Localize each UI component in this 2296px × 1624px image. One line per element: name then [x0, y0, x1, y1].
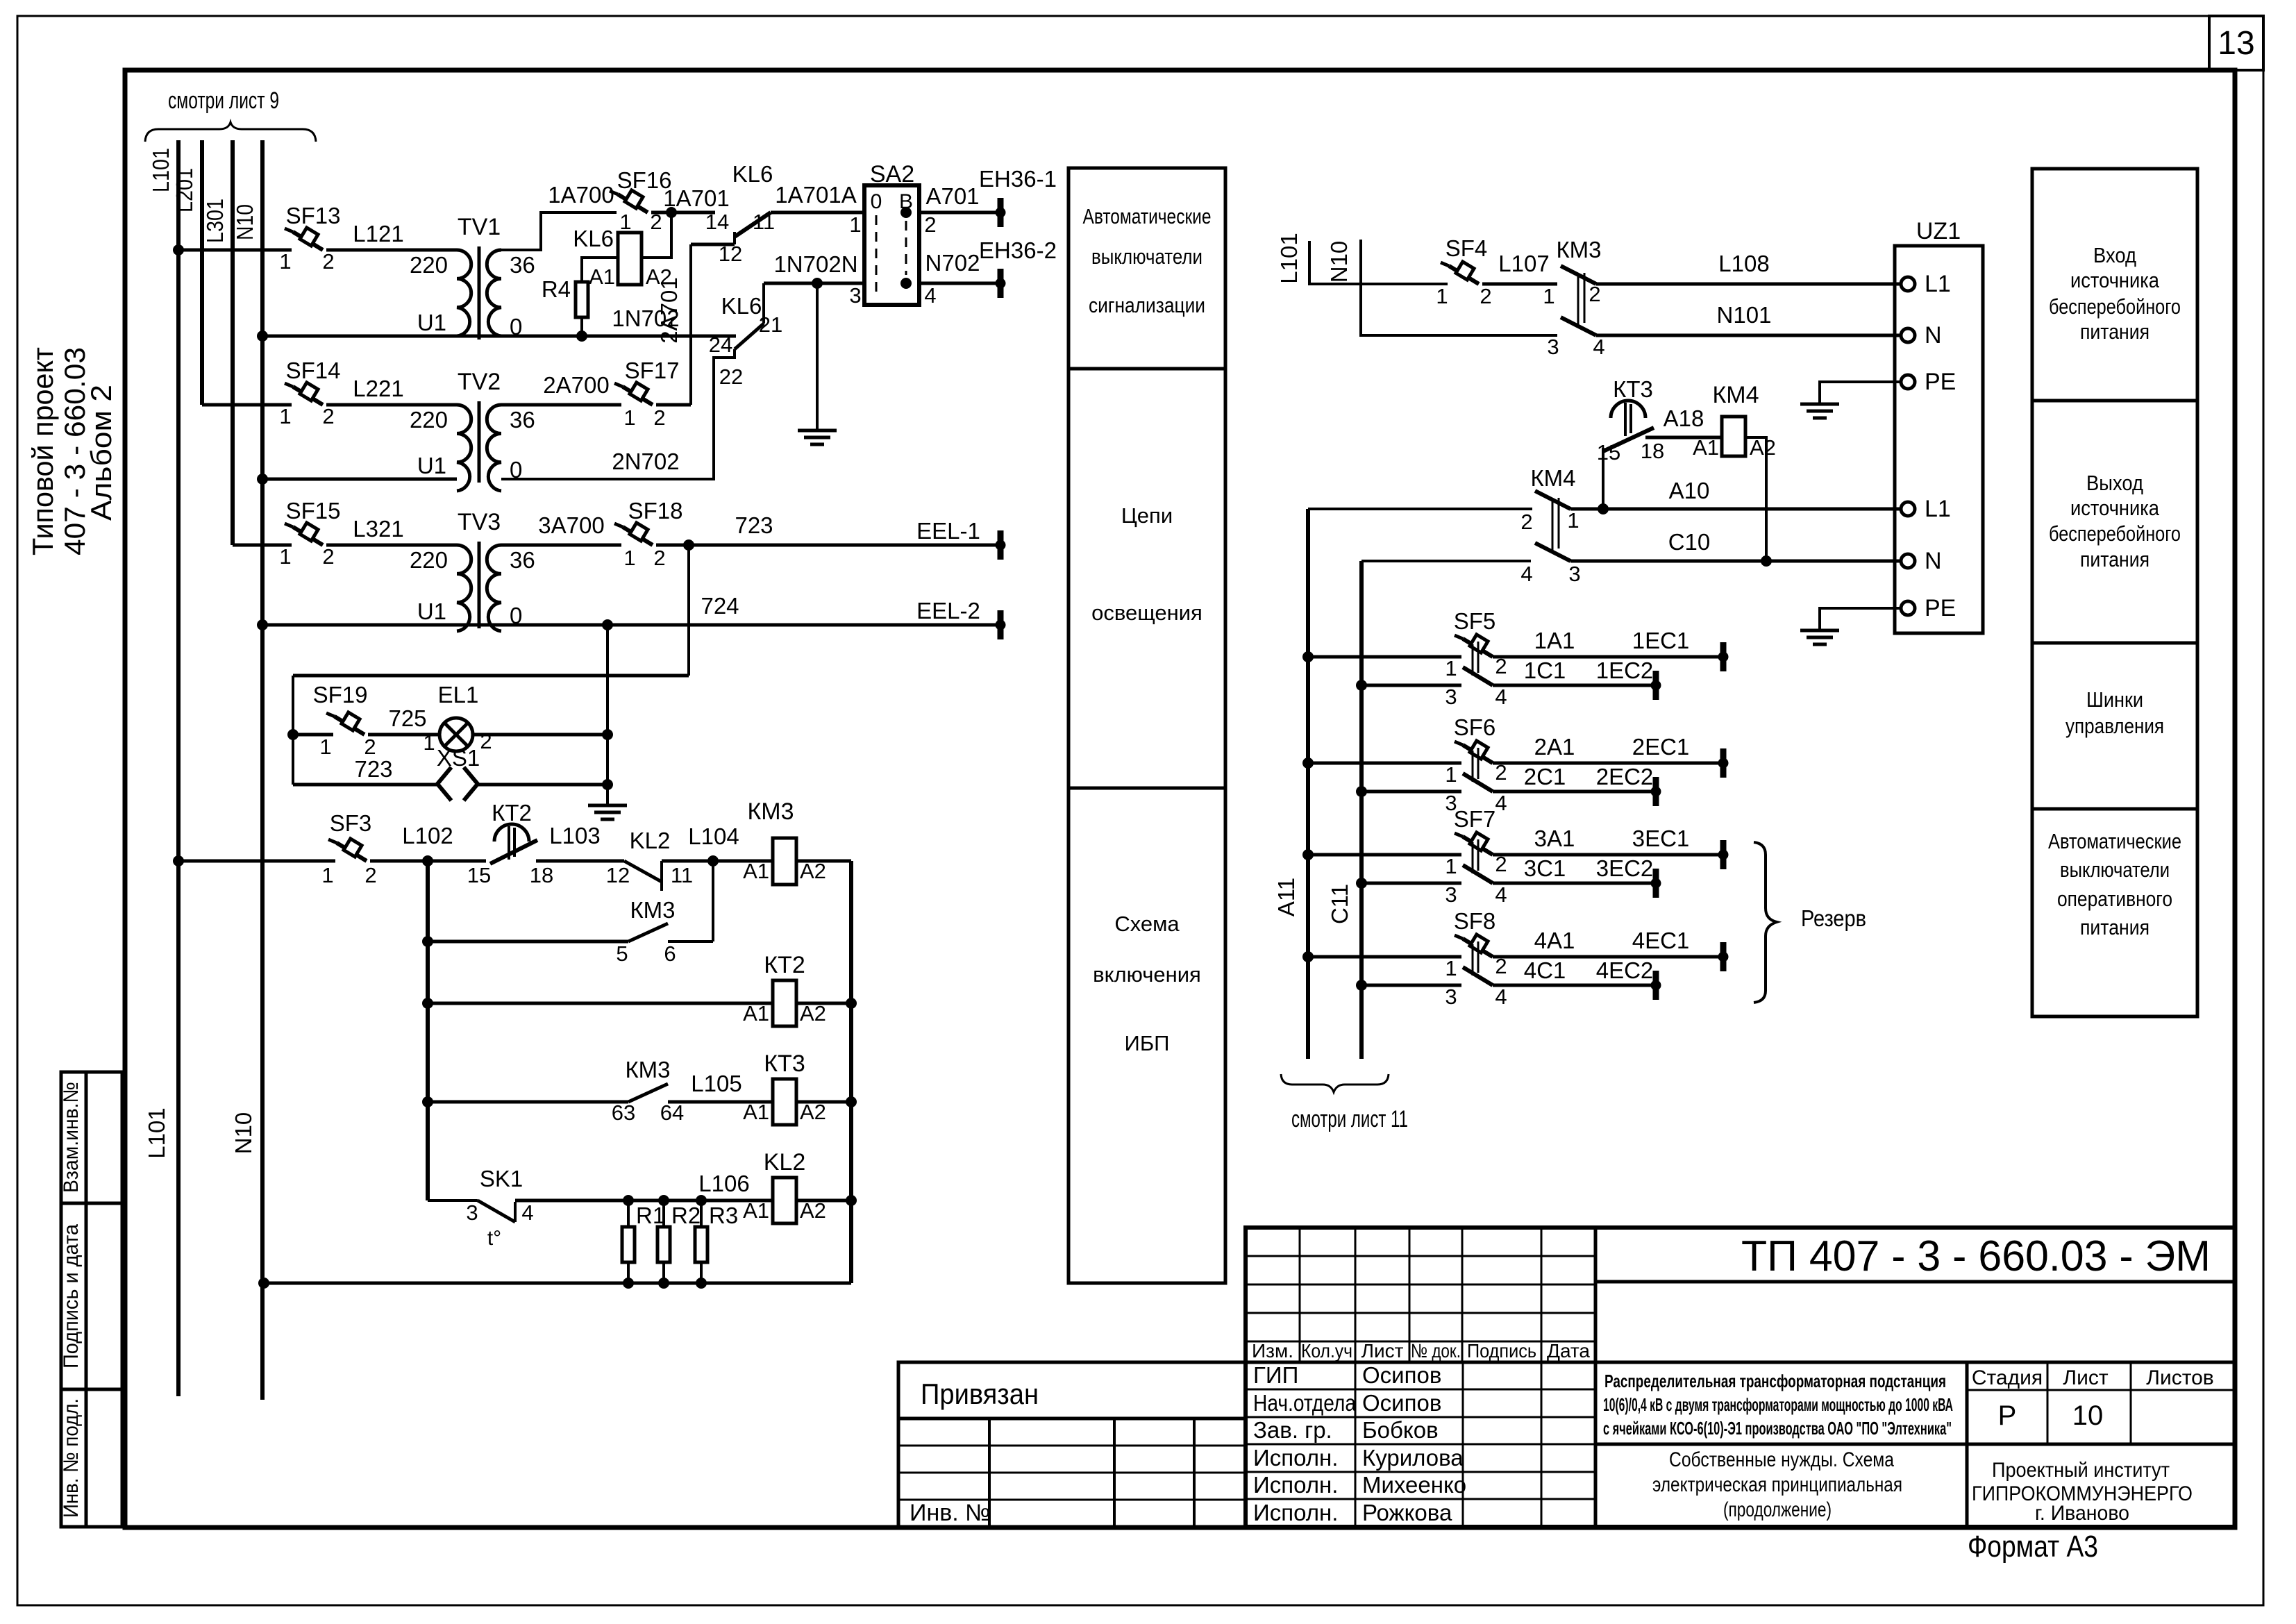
- wire: [689, 544, 1000, 547]
- wire: [428, 940, 628, 944]
- wire to ground: [816, 283, 819, 429]
- svg-text:ИБП: ИБП: [1125, 1031, 1170, 1055]
- node on C11: [1356, 786, 1367, 797]
- svg-text:выключатели: выключатели: [1091, 244, 1203, 269]
- svg-text:A1: A1: [743, 1100, 769, 1124]
- svg-text:N: N: [1925, 548, 1942, 574]
- wire: [368, 733, 439, 737]
- svg-text:2A700: 2A700: [543, 372, 609, 398]
- wire C11 branch: [1361, 560, 1531, 562]
- svg-text:Осипов: Осипов: [1362, 1390, 1441, 1416]
- terminal L1: [1901, 502, 1915, 516]
- svg-text:4: 4: [1495, 791, 1507, 815]
- relay contact KL2: [624, 861, 662, 882]
- svg-text:КМ3: КМ3: [1556, 237, 1601, 262]
- terminal 2EC2: [1651, 777, 1661, 806]
- wire: [536, 860, 624, 863]
- svg-text:18: 18: [530, 863, 553, 887]
- wire: [293, 674, 689, 678]
- wire KL6 coil feed: [642, 212, 671, 258]
- svg-text:A1: A1: [743, 1198, 769, 1223]
- svg-text:10: 10: [2072, 1400, 2104, 1431]
- svg-text:A10: A10: [1669, 478, 1710, 503]
- wire: [262, 478, 457, 481]
- svg-text:Дата: Дата: [1547, 1340, 1590, 1362]
- svg-text:3: 3: [1445, 685, 1457, 709]
- ground: [1800, 404, 1839, 418]
- svg-text:12: 12: [606, 863, 630, 887]
- wire: [1308, 762, 1461, 765]
- brace смотри лист 11: [1281, 1074, 1389, 1092]
- wire: [1361, 882, 1461, 885]
- node: [422, 998, 433, 1009]
- breaker SF15: [285, 523, 323, 545]
- node 1A701: [666, 207, 677, 218]
- node A10: [1598, 503, 1609, 514]
- svg-text:Автоматические: Автоматические: [2048, 829, 2181, 853]
- node R2 bottom: [658, 1278, 669, 1289]
- wire to ground: [606, 785, 609, 805]
- relay contact KM3 aux: [628, 923, 668, 941]
- resistor R3: [695, 1227, 707, 1262]
- svg-text:Михеенко: Михеенко: [1362, 1472, 1466, 1498]
- wire: [501, 623, 1000, 627]
- svg-text:N: N: [1925, 322, 1942, 349]
- wire: [501, 403, 621, 407]
- svg-text:1: 1: [1445, 854, 1457, 878]
- svg-text:KL6: KL6: [721, 293, 762, 319]
- svg-text:Лист: Лист: [1361, 1340, 1404, 1362]
- svg-text:КМ3: КМ3: [630, 897, 675, 923]
- svg-text:Бобков: Бобков: [1362, 1417, 1439, 1443]
- wire: [1645, 436, 1723, 440]
- svg-text:21: 21: [759, 312, 782, 337]
- wire PE to ground: [1820, 608, 1902, 629]
- functional zone boxes (middle): [1069, 168, 1225, 1283]
- wire: [293, 783, 437, 787]
- svg-text:2ЕС2: 2ЕС2: [1596, 764, 1654, 789]
- wire: [1308, 655, 1461, 659]
- svg-text:0: 0: [871, 190, 882, 213]
- wire: [293, 733, 333, 737]
- svg-text:L1: L1: [1925, 271, 1951, 297]
- svg-text:C10: C10: [1668, 529, 1711, 555]
- node C10: [1761, 555, 1772, 567]
- svg-text:Выход: Выход: [2086, 471, 2143, 495]
- svg-text:4: 4: [1593, 335, 1604, 359]
- time relay contact KT2: [494, 824, 529, 842]
- terminal N: [1901, 554, 1915, 568]
- wire: [1493, 790, 1656, 794]
- svg-text:включения: включения: [1093, 962, 1201, 987]
- svg-text:3: 3: [1547, 335, 1559, 359]
- svg-text:Исполн.: Исполн.: [1253, 1500, 1338, 1525]
- svg-text:КМ4: КМ4: [1530, 465, 1575, 491]
- wire: [1570, 508, 1902, 511]
- svg-text:Автоматические: Автоматические: [1083, 204, 1212, 228]
- breaker SF6 (2-pole): [1455, 741, 1493, 792]
- svg-text:U1: U1: [417, 310, 446, 335]
- svg-text:3: 3: [849, 283, 861, 308]
- wire: [326, 249, 457, 252]
- svg-text:Осипов: Осипов: [1362, 1362, 1441, 1388]
- svg-text:1: 1: [1445, 956, 1457, 980]
- ground: [1800, 630, 1839, 644]
- wire: [662, 860, 773, 863]
- svg-text:L201: L201: [171, 168, 197, 212]
- svg-text:723: 723: [735, 512, 773, 538]
- svg-text:1: 1: [623, 546, 635, 570]
- wire: [1493, 955, 1723, 959]
- wire: [202, 403, 292, 407]
- svg-text:КТ3: КТ3: [1613, 376, 1653, 402]
- contact dot: [900, 278, 912, 289]
- node 1N702N: [812, 278, 823, 289]
- breaker SF5 (2-pole): [1455, 635, 1493, 685]
- relay contact KM3 63-64: [628, 1084, 668, 1102]
- svg-text:SF13: SF13: [286, 203, 341, 228]
- svg-text:питания: питания: [2080, 915, 2150, 939]
- svg-text:Типовой проект: Типовой проект: [26, 347, 59, 555]
- contact dot: [900, 207, 912, 218]
- node on A11: [1302, 849, 1314, 860]
- svg-text:смотри лист 9: смотри лист 9: [168, 87, 279, 114]
- breaker SF16: [610, 190, 648, 212]
- wire: [1361, 790, 1461, 794]
- svg-text:4: 4: [1495, 685, 1507, 709]
- wire 2N702: [501, 349, 735, 479]
- svg-text:2N702: 2N702: [612, 449, 679, 474]
- terminal L1: [1901, 277, 1915, 291]
- svg-text:Альбом 2: Альбом 2: [85, 385, 117, 521]
- node on N10: [258, 1278, 269, 1289]
- wire: [656, 403, 691, 407]
- sheet number box: [2209, 16, 2263, 70]
- svg-text:2: 2: [322, 249, 334, 274]
- wire 2A701: [689, 244, 692, 405]
- wire R2 bottom: [662, 1262, 665, 1283]
- svg-text:питания: питания: [2080, 547, 2150, 571]
- svg-text:источника: источника: [2070, 268, 2160, 292]
- functional zone boxes (right): [2032, 169, 2197, 1016]
- svg-text:TV2: TV2: [458, 369, 501, 395]
- wire: [428, 1100, 628, 1104]
- contactor KM3 main contacts: [1561, 266, 1596, 335]
- node on A11: [1302, 651, 1314, 662]
- terminal 3EC2: [1651, 869, 1661, 898]
- svg-text:Листов: Листов: [2146, 1366, 2213, 1389]
- wire: [796, 1100, 851, 1104]
- svg-text:питания: питания: [2080, 319, 2150, 344]
- breaker SF19: [326, 712, 364, 735]
- wire: [178, 249, 292, 252]
- svg-text:1: 1: [279, 404, 291, 428]
- svg-text:KL6: KL6: [573, 226, 614, 251]
- svg-text:ГИП: ГИП: [1253, 1362, 1298, 1388]
- svg-text:1A701A: 1A701A: [775, 182, 856, 208]
- node R3 bottom: [696, 1278, 707, 1289]
- svg-text:1A701: 1A701: [663, 185, 729, 211]
- node R2 top: [658, 1195, 669, 1206]
- resistor R4: [576, 282, 588, 317]
- svg-text:КТ3: КТ3: [764, 1050, 805, 1077]
- svg-text:1А1: 1А1: [1534, 628, 1575, 653]
- svg-text:5: 5: [616, 941, 628, 966]
- wire: [1493, 762, 1723, 765]
- svg-text:10(6)/0,4 кВ с двумя трансформ: 10(6)/0,4 кВ с двумя трансформаторами мо…: [1603, 1394, 1953, 1415]
- svg-text:SF3: SF3: [330, 810, 372, 836]
- wire to R3: [700, 1200, 703, 1227]
- node 723: [683, 539, 694, 551]
- terminal PE: [1901, 375, 1915, 389]
- wire to R2: [662, 1200, 665, 1227]
- svg-text:(продолжение): (продолжение): [1723, 1498, 1832, 1521]
- svg-text:A1: A1: [589, 265, 615, 289]
- svg-text:3ЕС1: 3ЕС1: [1632, 826, 1690, 851]
- svg-text:Лист: Лист: [2063, 1366, 2108, 1389]
- svg-text:4: 4: [521, 1200, 533, 1225]
- svg-text:3A700: 3A700: [538, 512, 604, 538]
- node R3 top: [696, 1195, 707, 1206]
- svg-text:2: 2: [653, 405, 665, 430]
- svg-text:4А1: 4А1: [1534, 928, 1575, 953]
- svg-text:L103: L103: [549, 823, 600, 848]
- wire: [428, 1002, 773, 1005]
- svg-text:SF5: SF5: [1454, 608, 1496, 634]
- svg-text:сигнализации: сигнализации: [1089, 293, 1205, 317]
- svg-text:3: 3: [466, 1200, 478, 1225]
- svg-text:18: 18: [1641, 439, 1664, 463]
- terminal PE: [1901, 601, 1915, 615]
- wire: [771, 211, 864, 215]
- transformer TV2: [457, 401, 501, 491]
- svg-text:3ЕС2: 3ЕС2: [1596, 855, 1654, 881]
- svg-text:220: 220: [410, 252, 448, 278]
- node R1 bottom: [623, 1278, 634, 1289]
- svg-text:A2: A2: [1750, 435, 1776, 460]
- svg-text:N101: N101: [1717, 302, 1772, 328]
- terminal 1EC2: [1651, 671, 1661, 700]
- node: [602, 779, 613, 790]
- svg-text:L221: L221: [353, 376, 403, 401]
- terminal EEL-2: [996, 610, 1005, 639]
- svg-text:Курилова: Курилова: [1362, 1445, 1464, 1471]
- svg-text:Нач.отдела: Нач.отдела: [1253, 1390, 1357, 1416]
- wire left rail to SK1: [428, 1199, 478, 1202]
- terminal EH36-1: [996, 198, 1005, 227]
- transformer TV1: [457, 246, 501, 340]
- wire: [1308, 955, 1461, 959]
- wire PE to ground: [1820, 382, 1902, 403]
- time relay contact KT3: [1611, 401, 1645, 418]
- svg-text:A1: A1: [743, 1001, 769, 1026]
- svg-text:SF4: SF4: [1446, 235, 1488, 261]
- relay contact KL6 upper: [735, 212, 771, 237]
- svg-text:С11: С11: [1327, 884, 1352, 924]
- svg-text:1: 1: [623, 405, 635, 430]
- wire: [501, 544, 621, 547]
- svg-text:N10: N10: [231, 1112, 256, 1155]
- svg-text:64: 64: [660, 1100, 684, 1125]
- svg-text:14: 14: [705, 210, 729, 234]
- svg-text:A18: A18: [1664, 405, 1704, 431]
- terminal 1EC1: [1718, 642, 1728, 671]
- node: [422, 1096, 433, 1107]
- svg-text:4: 4: [1520, 562, 1532, 586]
- node: [846, 1195, 857, 1206]
- svg-text:бесперебойного: бесперебойного: [2049, 521, 2181, 546]
- privyazan table: [898, 1362, 1246, 1527]
- svg-text:UZ1: UZ1: [1916, 218, 1961, 244]
- svg-text:3: 3: [1445, 882, 1457, 907]
- svg-text:L101: L101: [144, 1107, 169, 1158]
- svg-text:№ док.: № док.: [1411, 1340, 1461, 1362]
- svg-text:Распределительная трансформато: Распределительная трансформаторная подст…: [1604, 1371, 1946, 1391]
- svg-text:R2: R2: [671, 1203, 701, 1228]
- node L102: [422, 855, 433, 867]
- wire: [473, 733, 607, 737]
- svg-text:1: 1: [279, 249, 291, 274]
- resistor R2: [657, 1227, 670, 1262]
- svg-text:13: 13: [2218, 25, 2254, 62]
- svg-text:управления: управления: [2065, 714, 2164, 738]
- wire: [1596, 283, 1902, 286]
- svg-text:1: 1: [423, 730, 435, 755]
- svg-text:KL2: KL2: [630, 828, 671, 853]
- relay coil KL2: [773, 1178, 796, 1223]
- svg-text:ЕН36-1: ЕН36-1: [979, 166, 1057, 192]
- svg-text:Р: Р: [1998, 1400, 2017, 1431]
- wire: [919, 282, 1000, 285]
- svg-text:L1: L1: [1925, 496, 1951, 522]
- svg-text:L102: L102: [402, 823, 453, 848]
- wire: [1493, 882, 1656, 885]
- breaker SF3: [328, 839, 367, 861]
- breaker SF13: [285, 228, 323, 250]
- node on A11: [1302, 951, 1314, 962]
- svg-text:36: 36: [510, 407, 535, 433]
- svg-text:4ЕС1: 4ЕС1: [1632, 928, 1690, 953]
- svg-text:SF15: SF15: [286, 498, 341, 524]
- svg-text:36: 36: [510, 547, 535, 573]
- node 724: [602, 619, 613, 630]
- svg-text:1: 1: [1543, 284, 1555, 308]
- svg-text:EEL-2: EEL-2: [916, 598, 980, 623]
- socket XS1: [437, 767, 451, 801]
- svg-text:63: 63: [612, 1100, 635, 1125]
- wire: [1493, 853, 1723, 857]
- wire: [1493, 684, 1656, 687]
- svg-text:1ЕС2: 1ЕС2: [1596, 658, 1654, 683]
- svg-text:24: 24: [709, 333, 732, 357]
- svg-text:Подпись: Подпись: [1467, 1340, 1536, 1362]
- wire: [233, 544, 292, 547]
- wire to KM3 aux: [712, 861, 714, 941]
- svg-text:6: 6: [664, 941, 676, 966]
- bus L301: [231, 140, 235, 545]
- svg-text:Изм.: Изм.: [1252, 1340, 1293, 1362]
- svg-text:КМ3: КМ3: [625, 1057, 670, 1082]
- svg-text:Проектный институт: Проектный институт: [1992, 1459, 2170, 1482]
- brace Резерв: [1754, 842, 1777, 1003]
- svg-text:1С1: 1С1: [1524, 658, 1566, 683]
- terminal EH36-2: [996, 269, 1005, 298]
- svg-text:SF6: SF6: [1454, 714, 1496, 740]
- svg-text:выключатели: выключатели: [2060, 857, 2170, 882]
- selector switch SA2: [864, 185, 919, 305]
- svg-text:XS1: XS1: [437, 745, 480, 771]
- transformer TV3: [457, 542, 501, 631]
- svg-text:Подпись и дата: Подпись и дата: [60, 1224, 83, 1368]
- svg-text:TV1: TV1: [458, 214, 501, 240]
- node on N10: [257, 474, 268, 485]
- wire: [668, 940, 713, 943]
- wire: [1493, 984, 1656, 987]
- wire: [1361, 684, 1461, 687]
- wire coil KM4 to C10: [1745, 437, 1766, 561]
- svg-text:Формат А3: Формат А3: [1968, 1530, 2098, 1564]
- node on N10: [257, 619, 268, 630]
- svg-text:3: 3: [1568, 562, 1580, 586]
- wire: [1596, 334, 1902, 337]
- svg-text:KL6: KL6: [732, 161, 773, 187]
- contactor KM4 main contacts: [1535, 491, 1570, 561]
- svg-text:L104: L104: [688, 823, 739, 849]
- svg-text:220: 220: [410, 547, 448, 573]
- wire from bus: [233, 544, 292, 547]
- wire: [764, 282, 864, 285]
- svg-text:36: 36: [510, 252, 535, 278]
- node SF19 feed: [287, 729, 299, 740]
- svg-text:A1: A1: [743, 859, 769, 883]
- svg-text:КМ3: КМ3: [747, 798, 794, 825]
- svg-text:4: 4: [1495, 882, 1507, 907]
- svg-text:t°: t°: [487, 1227, 501, 1250]
- svg-text:1: 1: [321, 863, 333, 887]
- svg-text:1: 1: [849, 212, 861, 237]
- svg-text:оперативного: оперативного: [2057, 887, 2172, 911]
- svg-text:Привязан: Привязан: [921, 1378, 1039, 1410]
- svg-text:SF19: SF19: [313, 682, 368, 708]
- svg-text:EEL-1: EEL-1: [916, 518, 980, 544]
- wire: [796, 1002, 851, 1005]
- svg-text:725: 725: [388, 705, 426, 731]
- node on C11: [1356, 680, 1367, 691]
- wire 1A700: [501, 212, 617, 250]
- svg-text:220: 220: [410, 407, 448, 433]
- breaker SF18: [614, 523, 653, 545]
- node: [846, 998, 857, 1009]
- node: [602, 729, 613, 740]
- svg-text:Вход: Вход: [2093, 243, 2136, 267]
- UPS unit UZ1: [1895, 246, 1983, 633]
- wire L101 branch: [1309, 241, 1448, 284]
- svg-text:L121: L121: [353, 221, 403, 246]
- svg-text:смотри лист 11: смотри лист 11: [1291, 1106, 1408, 1132]
- wire: [262, 623, 457, 627]
- wire: [326, 544, 457, 547]
- wire: [370, 860, 486, 863]
- svg-text:КТ2: КТ2: [764, 952, 805, 978]
- svg-text:L106: L106: [698, 1171, 749, 1196]
- wire R4 to 1N702: [580, 317, 583, 336]
- wire: [656, 544, 689, 547]
- svg-text:15: 15: [467, 863, 491, 887]
- terminal 4EC2: [1651, 971, 1661, 1000]
- svg-text:КТ2: КТ2: [492, 800, 532, 826]
- svg-text:3С1: 3С1: [1524, 855, 1566, 881]
- svg-text:Схема: Схема: [1114, 912, 1180, 936]
